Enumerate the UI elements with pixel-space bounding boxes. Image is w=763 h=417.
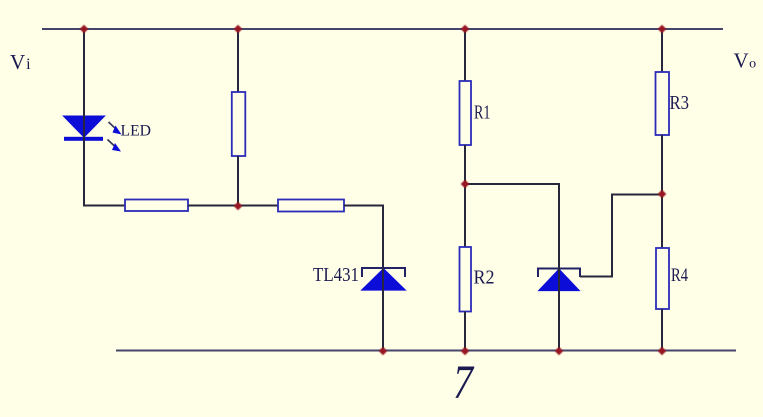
wire: R4 to bottom rail [661, 309, 663, 351]
wire: top rail down to R6 [237, 29, 239, 92]
svg-text:R4: R4 [671, 265, 688, 286]
resistor R7 (horizontal, unlabeled) [278, 200, 344, 212]
junction dot bottom rail at U2 [555, 347, 564, 356]
junction dot node C [658, 190, 667, 199]
wire: R2 to bottom rail [464, 312, 466, 352]
op-amp U1 TL431 triangle [363, 270, 404, 290]
op-amp U2 TL431 cathode bar [538, 269, 580, 278]
resistor R5 (horizontal, unlabeled) [125, 200, 188, 212]
svg-text:R3: R3 [670, 92, 690, 114]
wire: node B to U2 cathode [465, 184, 559, 268]
resistor R4 [656, 248, 669, 309]
LED light arrow 2 [108, 140, 122, 152]
wire: R1 to node B to R2 [464, 145, 466, 247]
svg-text:TL431: TL431 [313, 264, 359, 286]
op-amp U2 TL431 triangle [540, 270, 578, 290]
wire: U1 anode to bottom rail [382, 268, 384, 351]
wire: LED branch from top rail through LED to corner [83, 29, 85, 207]
wire: corner to resistor R5 [83, 205, 125, 207]
junction dot bottom rail at R2 [461, 347, 470, 356]
wire: R5 to node A [188, 205, 238, 207]
wire: top rail down to R3 [661, 29, 663, 72]
junction dot bottom rail at U1 [379, 347, 388, 356]
svg-text:LED: LED [121, 123, 152, 140]
junction dot top rail at R6 branch [234, 25, 243, 34]
junction dot bottom rail at R4 [658, 347, 667, 356]
svg-text:R1: R1 [474, 102, 491, 124]
wire: node A to resistor R7 [238, 205, 278, 207]
svg-text:R2: R2 [474, 267, 495, 289]
resistor R2 [460, 247, 472, 312]
wire: top rail Vi to Vo [42, 28, 723, 30]
junction dot node A [234, 202, 243, 211]
wire: U2 reference to node C [580, 195, 662, 277]
wire: R6 to node A [237, 156, 239, 206]
resistor R1 [460, 81, 472, 145]
junction dot top rail at R3 branch [658, 25, 667, 34]
junction dot top rail at LED branch [80, 25, 89, 34]
wire: bottom rail [116, 350, 736, 352]
LED D1 cathode bar [64, 137, 103, 141]
junction dot top rail at R1 branch [461, 25, 470, 34]
junction dot node B [461, 180, 470, 189]
op-amp U1 TL431 cathode bar [362, 268, 405, 277]
resistor R6 (vertical, unlabeled) [232, 92, 246, 156]
LED D1 anode triangle [65, 117, 104, 137]
wire: U2 anode to bottom rail [558, 268, 560, 351]
svg-text:7: 7 [453, 356, 475, 409]
LED light arrow 1 [109, 122, 122, 135]
wire: R7 to TL431 U1 cathode [344, 206, 383, 268]
resistor R3 [656, 72, 670, 135]
wire: top rail down to R1 [464, 29, 466, 81]
wire: R3 to node C to R4 [661, 135, 663, 248]
